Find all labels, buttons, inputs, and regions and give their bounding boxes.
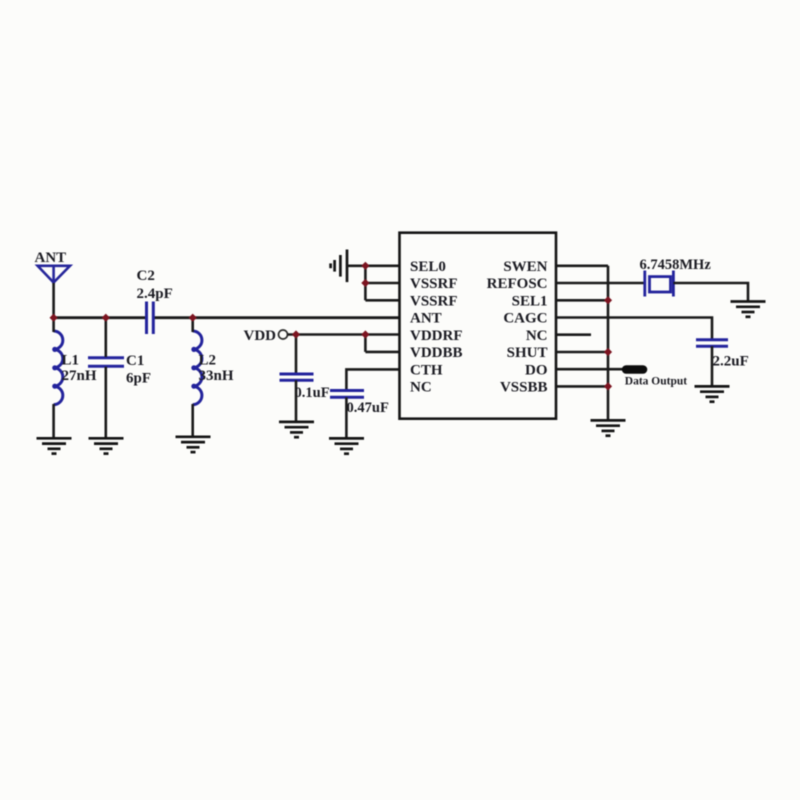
wire VSSBB to bus [556, 385, 608, 388]
ground at crystal [731, 302, 766, 317]
junction node VDD-VDDBB [361, 330, 369, 338]
svg-text:VDD: VDD [244, 328, 277, 344]
svg-text:L2: L2 [199, 352, 217, 368]
wire 0.47uF bottom [345, 397, 348, 438]
ground under right bus [591, 420, 626, 435]
wire VDDBB branch vertical [364, 335, 367, 352]
IC U1 body [400, 233, 557, 419]
svg-text:27nH: 27nH [62, 368, 97, 384]
wire vertical junction bus left [364, 266, 367, 301]
capacitor C2 [147, 302, 154, 335]
svg-text:ANT: ANT [35, 250, 67, 266]
wire antenna to main net [52, 283, 55, 318]
ground under 0.47uF [329, 438, 364, 453]
wire crystal to ground corner [673, 283, 748, 302]
svg-text:6.7458MHz: 6.7458MHz [640, 257, 712, 273]
junction node bus-SEL1 [604, 296, 612, 304]
svg-text:SWEN: SWEN [503, 259, 547, 275]
wire 2.2uF bottom [711, 346, 714, 386]
junction node bus-SHUT [604, 348, 612, 356]
VDD terminal circle [279, 330, 288, 339]
wire main net left segment (ANT to C2) [52, 316, 146, 319]
inductor L2 [191, 331, 202, 405]
svg-text:NC: NC [526, 328, 548, 344]
wire right bus vertical [607, 266, 610, 421]
data output pill [622, 365, 648, 374]
junction node main-L2 [189, 314, 197, 322]
svg-text:6pF: 6pF [126, 370, 151, 386]
wire L2 bottom [191, 404, 194, 437]
capacitor 2.2uF [696, 340, 728, 346]
svg-text:VDDBB: VDDBB [410, 345, 463, 361]
svg-text:VSSRF: VSSRF [410, 293, 458, 309]
ground under L1 [37, 438, 72, 453]
junction node main-ANT [49, 314, 57, 322]
svg-text:2.4pF: 2.4pF [137, 286, 173, 302]
wire L1 bottom [52, 404, 55, 438]
svg-text:VDDRF: VDDRF [410, 328, 463, 344]
svg-text:ANT: ANT [410, 311, 442, 327]
junction node VDD-0.1uF [292, 330, 300, 338]
inductor L1 [52, 331, 63, 405]
wire VSSRF2 to IC [365, 299, 399, 302]
junction node bus-VSSBB [604, 382, 612, 390]
crystal Y1 6.7458MHz [645, 271, 674, 297]
svg-text:33nH: 33nH [199, 368, 234, 384]
ground under 0.1uF [279, 422, 314, 437]
wire VSSRF1 to IC [365, 282, 399, 285]
junction node VSSRF-gnd [361, 279, 369, 287]
wire L2 top [191, 318, 194, 332]
capacitor 0.1uF [280, 374, 314, 380]
wire SEL0 junction to IC [365, 264, 399, 267]
svg-text:SHUT: SHUT [507, 345, 548, 361]
svg-text:VSSBB: VSSBB [500, 380, 548, 396]
svg-text:NC: NC [410, 380, 432, 396]
wire VDDBB branch horizontal [365, 351, 399, 354]
svg-text:0.1uF: 0.1uF [295, 385, 330, 401]
wire SHUT to bus [556, 351, 608, 354]
wire REFOSC to crystal [556, 282, 645, 285]
wire 0.1uF cap bottom [295, 380, 298, 422]
svg-text:2.2uF: 2.2uF [713, 353, 749, 369]
svg-text:0.47uF: 0.47uF [347, 400, 389, 416]
svg-text:L1: L1 [62, 352, 80, 368]
junction node SEL0-gnd [361, 262, 369, 270]
wire L1 top [52, 318, 55, 332]
svg-text:VSSRF: VSSRF [410, 276, 458, 292]
antenna ANT symbol [38, 266, 70, 284]
svg-text:DO: DO [525, 362, 548, 378]
capacitor 0.47uF [330, 391, 364, 398]
wire CAGC to 2.2uF [556, 318, 712, 340]
ground under L2 [176, 437, 211, 452]
ground top-left rotated (at SEL0/VSSRF) [331, 250, 347, 283]
IC left pin labels [410, 259, 463, 396]
wire CTH to 0.47uF [346, 369, 399, 390]
svg-text:C2: C2 [137, 268, 155, 284]
ground under C1 [89, 438, 124, 453]
wire VDD to IC pin VDDRF [288, 333, 400, 336]
svg-text:CAGC: CAGC [503, 311, 547, 327]
wire main net right segment (C2 to IC pin ANT) [154, 316, 400, 319]
svg-text:Data Output: Data Output [625, 376, 687, 388]
junction node main-C1 [102, 314, 110, 322]
svg-text:SEL1: SEL1 [512, 293, 548, 309]
ground under 2.2uF [695, 386, 730, 401]
wire C1 top [105, 318, 108, 357]
wire C1 bottom [105, 367, 108, 438]
wire DO to data output pill [556, 368, 624, 371]
svg-text:CTH: CTH [410, 362, 443, 378]
wire SEL1 to bus [556, 299, 608, 302]
svg-text:REFOSC: REFOSC [487, 276, 548, 292]
wire SWEN to bus [556, 264, 608, 267]
wire NC right stub [556, 333, 591, 336]
capacitor C1 [88, 358, 124, 367]
wire 0.1uF cap top [295, 335, 298, 375]
wire ground to SEL0 junction [347, 264, 365, 267]
svg-text:C1: C1 [126, 353, 144, 369]
svg-text:SEL0: SEL0 [410, 259, 446, 275]
IC right pin labels [487, 259, 548, 396]
